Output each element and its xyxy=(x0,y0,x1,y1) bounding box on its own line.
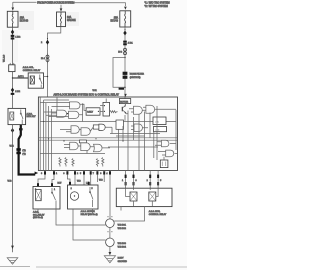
relay R9 box xyxy=(33,187,60,210)
wire U13 io xyxy=(131,126,148,130)
svg-text:MOTOR: MOTOR xyxy=(120,101,128,103)
connector on ECU-B wire xyxy=(123,31,126,36)
diode block D2 xyxy=(154,127,167,132)
svg-text:1: 1 xyxy=(54,189,55,191)
svg-text:W-B B01: W-B B01 xyxy=(118,225,127,227)
resistor R3 xyxy=(59,158,61,167)
wire ecu pin stub xyxy=(96,175,98,182)
scan tint patch fuse2 label xyxy=(66,12,79,26)
node noise filter bottom xyxy=(124,87,125,88)
output block Q5 xyxy=(160,160,168,168)
wire control relay to junction A xyxy=(114,207,144,221)
svg-text:A.B.S.: A.B.S. xyxy=(27,112,33,115)
wire ecu pin to relay R9 contact xyxy=(52,175,54,187)
wire relay R9 coil stub xyxy=(37,209,39,214)
relay R8 box xyxy=(8,108,26,124)
wire control relay left pin down xyxy=(120,207,122,211)
wire ecu pin to relay R10 xyxy=(67,175,70,185)
svg-text:BODY: BODY xyxy=(118,258,125,260)
svg-text:R-W: R-W xyxy=(58,183,62,185)
control relay coil bottom wires xyxy=(134,201,153,207)
ecu inner bus horizontal mid xyxy=(40,121,176,123)
svg-text:ANTI-LOCK BRAKE SYSTEM ECU & C: ANTI-LOCK BRAKE SYSTEM ECU & CONTROL REL… xyxy=(54,93,120,96)
connector pair on ECU-B wire xyxy=(123,41,127,43)
svg-text:5: 5 xyxy=(160,180,161,182)
svg-text:4: 4 xyxy=(106,173,107,175)
node noise filter top xyxy=(124,57,125,58)
svg-text:A.B.S. SOL.: A.B.S. SOL. xyxy=(23,66,35,69)
svg-text:W-R: W-R xyxy=(10,146,15,148)
svg-text:3: 3 xyxy=(136,180,137,182)
gate U7 xyxy=(81,128,90,136)
wire junction B to ground xyxy=(109,247,111,254)
relay R8 coil xyxy=(10,112,14,120)
fuse GAUGE element xyxy=(60,12,61,27)
wire motor block to transistor Q3 xyxy=(124,105,126,107)
svg-text:GAUGE: GAUGE xyxy=(67,19,76,22)
ground symbol right xyxy=(104,256,115,263)
node junction to control relay xyxy=(12,77,13,78)
svg-text:S.RLY: S.RLY xyxy=(87,112,93,114)
noise filter component xyxy=(123,72,128,75)
resistor R2 xyxy=(110,111,118,113)
wire fuse ECU-IG output xyxy=(12,27,14,108)
svg-text:MTR RLY: MTR RLY xyxy=(27,116,37,118)
wire gate U5 to right bus xyxy=(131,107,146,112)
connector pair circles on ECU-B wire xyxy=(124,48,127,51)
ecu inner edge line xyxy=(39,97,41,171)
wire left ground run xyxy=(12,125,14,253)
svg-text:*2 : W/ TRC SYSTEM: *2 : W/ TRC SYSTEM xyxy=(145,5,168,8)
ecu inner bus horizontal low A xyxy=(39,137,177,139)
relay R10 contact xyxy=(90,187,93,207)
svg-text:ACT 1: ACT 1 xyxy=(18,75,25,78)
connector on GAUGE wire xyxy=(46,40,49,45)
gate U4 xyxy=(134,106,143,114)
svg-text:SOL.RELAY: SOL.RELAY xyxy=(33,213,45,216)
fuse ECU-B box xyxy=(120,11,131,27)
svg-text:IH 3: IH 3 xyxy=(118,51,123,53)
wire fuse ECU-B into motor block xyxy=(124,97,126,99)
wires ecu to control relay box xyxy=(126,178,159,188)
wire gate U4 io xyxy=(129,109,176,111)
diode block D1 xyxy=(153,117,166,125)
wire ecu pin to relay R10 b xyxy=(74,175,76,185)
ground symbol left xyxy=(7,258,18,264)
tick marks J/C xyxy=(10,63,14,65)
control relay coil 1 xyxy=(130,192,137,201)
junction A circle xyxy=(106,219,115,228)
svg-text:( *1): ( *1) xyxy=(156,129,160,131)
ic block solenoid xyxy=(86,108,100,115)
ECU box xyxy=(38,97,177,171)
ecu inner bus horizontal low B xyxy=(39,139,177,141)
arrowhead ground left xyxy=(11,246,14,249)
noise filter branch loop xyxy=(113,58,125,88)
wire junction A to B xyxy=(109,228,111,239)
ecu inner bus vertical 4 xyxy=(51,109,53,171)
relay R1 coil xyxy=(30,76,34,84)
wires ic block to coil block xyxy=(100,106,103,112)
wire drop to fuse GAUGE xyxy=(60,5,62,9)
svg-text:W-B: W-B xyxy=(99,180,103,182)
ecu inner bus vertical 2 xyxy=(45,103,47,171)
connector pair on thick wire xyxy=(16,148,20,151)
relay R9 contact xyxy=(52,188,56,207)
gate U12 xyxy=(70,142,78,150)
wire transistor to gate U4 xyxy=(126,111,128,122)
svg-text:1 IA2: 1 IA2 xyxy=(15,90,21,93)
wire ecu pin stub2 xyxy=(103,175,105,182)
wire U3 output down to bus xyxy=(79,104,83,121)
junction A entry ticks xyxy=(107,217,112,232)
ecu inner bus vertical 1 xyxy=(43,100,45,171)
svg-text:6: 6 xyxy=(41,173,42,175)
svg-text:(*2): (*2) xyxy=(22,153,26,155)
page border bottom xyxy=(0,265,187,268)
gate U6 xyxy=(71,126,79,134)
arrowhead into fuse ECU-IG xyxy=(12,7,15,10)
resistor R7 xyxy=(102,158,104,167)
svg-text:7: 7 xyxy=(93,173,94,175)
wire ecu pin to junction A xyxy=(109,175,111,219)
svg-text:1: 1 xyxy=(122,180,123,182)
arrowhead ground right xyxy=(109,252,112,255)
relay R1 box xyxy=(28,73,43,88)
connector below relay R8 xyxy=(11,128,14,133)
block B2 xyxy=(99,124,105,130)
svg-text:(R/B No.2): (R/B No.2) xyxy=(33,217,43,219)
gate U8 xyxy=(81,143,90,151)
gate U13 xyxy=(134,124,142,132)
connector pair circles on GAUGE wire xyxy=(46,55,49,58)
control relay connector pins xyxy=(125,182,127,185)
top power bus wire right segment xyxy=(73,3,125,6)
ecu inner bus vertical 3 xyxy=(48,106,50,171)
svg-text:W-B B04: W-B B04 xyxy=(118,246,127,248)
svg-text:A.B.S. ECU,: A.B.S. ECU, xyxy=(149,210,161,213)
svg-text:W-L 2.0: W-L 2.0 xyxy=(4,54,6,62)
block B1 xyxy=(93,125,99,129)
relay R10 coil circle xyxy=(70,192,78,200)
connector pair on ECU-IG wire xyxy=(11,35,15,37)
wire row2 gate links xyxy=(60,127,112,134)
node gate U2 output xyxy=(82,104,83,105)
svg-text:A.B.S. MOTOR: A.B.S. MOTOR xyxy=(81,210,96,213)
ecu routing horizontals center xyxy=(108,134,160,148)
fuse GAUGE box xyxy=(57,12,66,27)
arrowhead into fuse ECU-B xyxy=(124,7,127,10)
thick supply wire from motor relay xyxy=(19,125,36,175)
relay R10 box xyxy=(68,185,99,209)
svg-text:1: 1 xyxy=(56,173,57,175)
svg-text:4 IB1: 4 IB1 xyxy=(128,43,134,45)
svg-text:W-R: W-R xyxy=(93,90,98,92)
relay R10 top pin blobs xyxy=(69,182,71,185)
svg-text:W-B B02: W-B B02 xyxy=(118,228,127,230)
svg-text:W-B: W-B xyxy=(77,181,81,183)
junction block J/C on ECU-IG wire xyxy=(9,65,15,72)
svg-text:(IGNITION): (IGNITION) xyxy=(130,77,141,79)
wire row2 lower gate links xyxy=(64,145,110,154)
ecu pin stubs right xyxy=(126,171,159,176)
transistor Q3 xyxy=(121,107,123,112)
svg-text:RELAY (R/B No.2): RELAY (R/B No.2) xyxy=(81,213,98,216)
svg-text:5: 5 xyxy=(80,173,81,175)
block B4 xyxy=(116,120,124,129)
svg-text:ECU-B: ECU-B xyxy=(111,20,119,23)
svg-text:2: 2 xyxy=(77,173,78,175)
relay coil block xyxy=(103,102,110,116)
connector on left wire above motor relay xyxy=(11,88,14,93)
motor block xyxy=(119,99,130,104)
wire relay R9 to junction A xyxy=(56,207,106,225)
svg-text:IH 4: IH 4 xyxy=(41,58,46,60)
node R1 to GAUGE wire xyxy=(47,76,48,77)
fuse ECU-IG element xyxy=(12,11,13,27)
gate U3 xyxy=(69,111,79,118)
relay R8 contact xyxy=(21,110,23,125)
wire relay R10 contact stub xyxy=(92,209,94,214)
gate U5 xyxy=(146,105,155,113)
block B3 xyxy=(79,140,86,143)
svg-text:5: 5 xyxy=(92,188,93,190)
wire relay R10 to junction B xyxy=(73,209,106,240)
svg-text:2: 2 xyxy=(41,42,43,44)
wire coil block top xyxy=(105,99,107,103)
connector on ECU-IG wire xyxy=(11,30,14,35)
svg-text:3: 3 xyxy=(63,173,64,175)
junction B circle xyxy=(106,238,115,247)
svg-text:NOISE FILTER: NOISE FILTER xyxy=(130,74,145,76)
top power bus wire left segment xyxy=(13,1,37,3)
fuse ECU-IG box xyxy=(7,11,18,27)
resistor R5 xyxy=(72,159,74,167)
wire fuse ECU-B output xyxy=(124,27,126,97)
wire U1 output to U3 xyxy=(67,113,69,115)
wire fuse GAUGE output elbow xyxy=(48,27,61,97)
svg-text:CONTROL RELAY: CONTROL RELAY xyxy=(23,69,41,72)
fuse ECU-B element xyxy=(125,11,126,27)
node bus dots xyxy=(43,121,44,122)
arrowhead into ECU xyxy=(35,172,39,175)
svg-text:CONTROL RELAY: CONTROL RELAY xyxy=(149,213,167,216)
pin number labels xyxy=(41,173,161,182)
ecu routing vertical lines center xyxy=(119,112,154,171)
svg-text:W-B: W-B xyxy=(8,181,13,183)
wire ecu pin to relay R10 c xyxy=(83,175,85,185)
scan tint patch left connectors xyxy=(2,30,18,62)
wire top entry to gate U1 xyxy=(56,97,58,110)
ecu inner bus horizontal low C xyxy=(40,153,105,155)
wire U2 output to ic block xyxy=(80,104,86,110)
relay R1 contact xyxy=(40,75,42,88)
svg-text:FROM POWER SOURCE SYSTEM: FROM POWER SOURCE SYSTEM xyxy=(37,2,74,5)
svg-text:W-B B03: W-B B03 xyxy=(118,243,127,245)
scan tint patch left column xyxy=(18,11,34,30)
relay R9 coil xyxy=(36,190,42,201)
ecu routing right verticals xyxy=(157,106,176,160)
gate U1 xyxy=(57,110,67,117)
wire to control relay coil xyxy=(13,77,29,79)
control relay box xyxy=(116,188,172,206)
gate U2 xyxy=(70,102,80,109)
ECU bottom pin row xyxy=(44,171,159,178)
svg-text:GROUND: GROUND xyxy=(118,261,128,263)
gate U11 xyxy=(166,150,174,157)
control relay internal wires xyxy=(126,188,159,196)
arrowhead into fuse GAUGE xyxy=(60,8,63,11)
gate U9 xyxy=(94,144,103,152)
svg-text:1 IB2: 1 IB2 xyxy=(15,37,21,39)
svg-text:(*1): (*1) xyxy=(22,150,26,152)
wire gate U1 inputs xyxy=(44,112,57,115)
resistor R4 xyxy=(65,158,67,167)
wire ecu pin to relay R10 d xyxy=(90,175,92,185)
wire ecu pin to relay R9 coil xyxy=(38,175,45,187)
wire relay R1 output to node xyxy=(44,76,48,78)
connector below noise filter xyxy=(119,88,124,90)
svg-text:ECU-IG: ECU-IG xyxy=(20,19,29,22)
svg-text:2: 2 xyxy=(147,180,148,182)
gate U10 xyxy=(161,140,169,147)
wire transistor Q3 down xyxy=(124,115,126,121)
wire gate U10 U11 links xyxy=(155,142,177,160)
wire drop to fuse ECU-IG xyxy=(12,2,14,7)
control relay coil 2 xyxy=(149,192,156,201)
svg-text:2: 2 xyxy=(71,188,72,190)
resistor R6 xyxy=(96,159,98,167)
ecu inner bus horizontal 1 xyxy=(44,99,69,101)
wire gate U2 U3 inputs xyxy=(40,103,69,117)
relay R9 top pin blobs xyxy=(37,183,39,186)
svg-text:8: 8 xyxy=(100,173,101,175)
